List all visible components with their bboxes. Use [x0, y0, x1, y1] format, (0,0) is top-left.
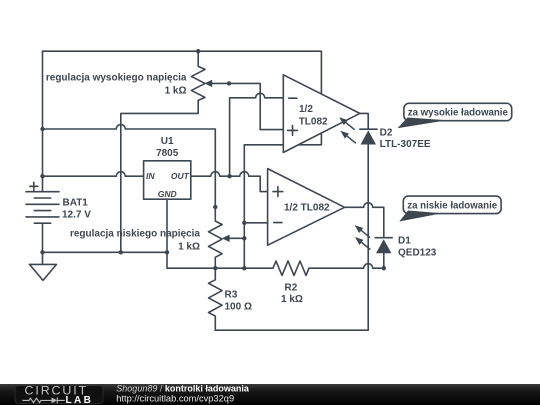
wire pot R4 wiper shaft [228, 237, 244, 239]
svg-text:1/2: 1/2 [299, 104, 313, 115]
svg-text:BAT1: BAT1 [63, 198, 89, 209]
ground [30, 252, 57, 280]
svg-text:GND: GND [158, 189, 177, 199]
junction node left rail IN [40, 174, 44, 178]
svg-text:1 kΩ: 1 kΩ [165, 86, 187, 97]
svg-text:IN: IN [146, 171, 155, 181]
op-amp U3 minus glyph [274, 222, 282, 224]
LED D1 cathode bar [375, 237, 392, 239]
footer logo frame [15, 386, 103, 404]
svg-text:1 kΩ: 1 kΩ [178, 242, 200, 253]
wire ground rail left [43, 251, 168, 253]
potentiometer R1 body 1k regulacja wysokiego napiecia [191, 51, 205, 100]
wire pot R1 bottom to ground rail [121, 100, 198, 252]
op-amp U2 minus glyph [289, 97, 297, 99]
resistor R3 body [209, 268, 223, 330]
wire op-amp U2 output to LED D2 cathode [360, 113, 368, 129]
op-amp U2 triangle [283, 75, 360, 153]
junction node wiper wire [227, 81, 231, 85]
svg-text:D1: D1 [398, 236, 411, 247]
footer logo schematic squiggle [23, 398, 65, 404]
junction node pot R4 wiper [242, 236, 246, 240]
LED D2 triangle [361, 130, 376, 144]
svg-text:100 Ω: 100 Ω [225, 302, 252, 313]
battery plus sign [30, 182, 38, 190]
svg-text:LAB: LAB [66, 395, 94, 405]
footer logo diode triangle [52, 398, 58, 404]
junction node U1 OUT column [227, 174, 231, 178]
svg-text:D2: D2 [380, 128, 393, 139]
svg-text:1 kΩ: 1 kΩ [281, 294, 303, 305]
wire U1 GND pin down [166, 199, 168, 252]
LED D1 emission arrows [355, 225, 371, 238]
wire left rail battery positive [42, 51, 44, 192]
wire mid rail to potentiometer R4 top (hop over x=121) [43, 125, 216, 208]
svg-text:regulacja niskiego napięcia: regulacja niskiego napięcia [70, 229, 200, 240]
op-amp U3 plus glyph [273, 187, 283, 197]
svg-text:R2: R2 [285, 283, 298, 294]
svg-text:R3: R3 [225, 290, 238, 301]
wire op-amp U3 minus input [244, 222, 267, 224]
LED D1 triangle [376, 239, 391, 253]
LED D2 emission arrows [339, 117, 355, 130]
junction node U1 GND [165, 250, 169, 254]
svg-text:12.7 V: 12.7 V [62, 210, 91, 221]
op-amp U3 triangle [268, 169, 345, 246]
junction node column x244 bottom [242, 266, 246, 270]
junction node D1 anode [382, 266, 386, 270]
svg-text:7805: 7805 [156, 148, 179, 159]
junction node pot R1 ground [119, 250, 123, 254]
wire U1 OUT to op-amp U3 + input (hops over x=215.3 and x=244.3) [191, 172, 268, 192]
potentiometer R4 body 1k regulacja niskiego napiecia [209, 207, 223, 268]
junction node op-amp U3 minus [242, 221, 246, 225]
junction node pot R1 top [196, 49, 200, 53]
potentiometer R4 wiper arrow [222, 235, 230, 242]
junction node R3 top [213, 266, 217, 270]
svg-text:regulacja wysokiego napięcia: regulacja wysokiego napięcia [46, 73, 187, 84]
wire battery+ to U1 IN (hop over x=121) [43, 172, 144, 177]
op-amp U2 plus glyph [288, 126, 298, 136]
svg-text:TL082: TL082 [299, 116, 328, 127]
junction node left rail mid [40, 127, 44, 131]
footer bar [0, 384, 540, 405]
svg-text:za niskie ładowanie: za niskie ładowanie [407, 201, 498, 212]
wire U1 OUT reference to op-amp U2 minus input (hop over x=260.2) [230, 93, 284, 176]
svg-text:1/2 TL082: 1/2 TL082 [284, 203, 330, 214]
svg-text:Shogun89 / kontrolki ładowania: Shogun89 / kontrolki ładowania [116, 384, 250, 394]
wire top rail battery+ to op-amp U2 V+ stub [43, 51, 322, 94]
callout bubble za wysokie ladowanie [404, 103, 512, 120]
junction node battery minus [40, 250, 44, 254]
wire LED column D2 anode down to bottom rail [367, 144, 369, 330]
wire ground jog to R2 row and D1 anode (hop over x=367.8) [167, 252, 384, 275]
callout bubble za niskie ladowanie [403, 196, 501, 214]
svg-text:LTL-307EE: LTL-307EE [380, 139, 431, 150]
junction node pot R4 top [213, 205, 217, 209]
wire op-amp U3 output to LED D1 cathode (hop over x=367.8) [345, 203, 384, 238]
svg-text:OUT: OUT [171, 171, 190, 181]
battery BAT1 bottom lead [42, 223, 44, 252]
svg-text:http://circuitlab.com/cvp32q9: http://circuitlab.com/cvp32q9 [116, 393, 234, 403]
wire bottom rail R3 to LED column [215, 329, 368, 331]
IC U1 7805 box [144, 161, 191, 199]
svg-text:U1: U1 [161, 136, 174, 147]
wire LED D1 anode to R2 node [383, 253, 385, 268]
svg-text:QED123: QED123 [398, 248, 437, 259]
svg-text:za wysokie ładowanie: za wysokie ładowanie [408, 108, 509, 119]
battery BAT1 plates [26, 192, 59, 224]
wire op-amp U2 V- stub to node column x=244.3 [244, 133, 321, 268]
wire pot R1 wiper to op-amp U2 plus input [211, 83, 284, 129]
LED D2 cathode bar [360, 128, 377, 130]
potentiometer R1 wiper arrow [204, 80, 212, 87]
